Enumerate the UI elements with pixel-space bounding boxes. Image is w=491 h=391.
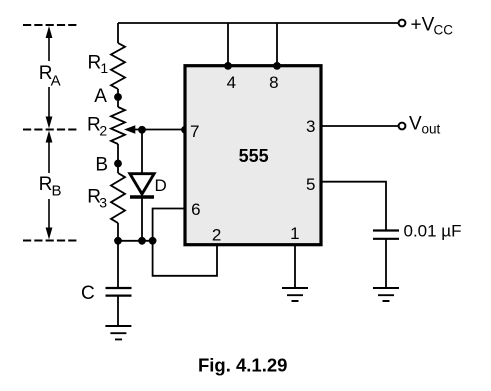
svg-text:7: 7 (190, 122, 199, 141)
svg-text:+V: +V (411, 15, 435, 36)
wire top rail to +Vcc (118, 22, 399, 24)
wire pin 1 to ground (294, 245, 296, 288)
node A (114, 93, 122, 101)
svg-text:A: A (51, 73, 61, 90)
dimension arrow RB (48, 137, 50, 233)
resistor R3 (111, 173, 125, 223)
junction on bottom rail middle (138, 237, 146, 245)
potentiometer R2 (111, 107, 125, 144)
junction node at pin 7 on IC edge (181, 126, 189, 134)
svg-text:0.01 µF: 0.01 µF (404, 222, 462, 241)
junction on bottom rail left (114, 237, 122, 245)
svg-text:B: B (52, 182, 62, 199)
ground below bypass capacitor (373, 288, 399, 301)
junction on bottom rail right (149, 237, 157, 245)
terminal Vout open circle (399, 123, 406, 130)
wire R3 to capacitor C (117, 223, 119, 288)
wire pin 6 and pin 2 path (153, 209, 217, 276)
wire pin 5 to bypass capacitor (321, 182, 386, 231)
op IC 555 body U1 (185, 66, 321, 245)
wiper arrow of R2 (135, 129, 184, 131)
capacitor 0.01uF (373, 229, 399, 231)
wire left vertical from top rail to R1 (117, 23, 119, 43)
wire C to ground (117, 296, 119, 326)
wire bottom rail (118, 240, 153, 242)
svg-text:3: 3 (99, 195, 107, 211)
resistor R1 (111, 43, 125, 89)
svg-text:6: 6 (191, 200, 200, 219)
pin 4 junction dot (224, 62, 232, 70)
svg-text:2: 2 (212, 226, 221, 245)
diode D (130, 174, 154, 194)
svg-text:A: A (94, 86, 107, 107)
svg-text:V: V (409, 114, 422, 135)
svg-text:4: 4 (227, 73, 236, 92)
terminal +Vcc open circle (399, 20, 406, 27)
wire drop to pin 8 (276, 23, 278, 66)
dashed marker line middle (23, 129, 77, 131)
capacitor C (106, 287, 132, 289)
svg-text:R: R (88, 53, 102, 74)
svg-text:3: 3 (306, 117, 315, 136)
wire pin 3 to Vout (321, 125, 399, 127)
ground below C (105, 326, 131, 339)
svg-text:Fig. 4.1.29: Fig. 4.1.29 (198, 355, 287, 376)
svg-text:D: D (155, 176, 167, 195)
wire diode cathode down to bottom rail (141, 197, 143, 241)
ground below pin 1 (282, 288, 308, 301)
svg-text:555: 555 (239, 146, 269, 166)
wire R1 to R2 (117, 89, 119, 107)
svg-text:8: 8 (269, 73, 278, 92)
svg-text:B: B (95, 155, 108, 176)
wire R2 to R3 (117, 144, 119, 173)
svg-text:5: 5 (306, 175, 315, 194)
svg-text:1: 1 (290, 224, 299, 243)
wire bypass cap to ground (385, 239, 387, 288)
svg-text:1: 1 (100, 60, 108, 76)
svg-text:out: out (422, 122, 441, 137)
pin 8 junction dot (273, 62, 281, 70)
dashed marker line top (23, 24, 77, 26)
node B (114, 160, 122, 168)
wire drop to pin 4 (227, 23, 229, 66)
wire wiper junction down to diode (141, 130, 143, 174)
svg-text:C: C (81, 283, 95, 304)
junction node wiper/pin7 (138, 126, 146, 134)
svg-text:CC: CC (434, 23, 454, 38)
svg-text:R: R (39, 174, 53, 195)
svg-text:2: 2 (99, 123, 107, 139)
dashed marker line bottom (23, 240, 77, 242)
dimension arrow RA (48, 33, 50, 123)
